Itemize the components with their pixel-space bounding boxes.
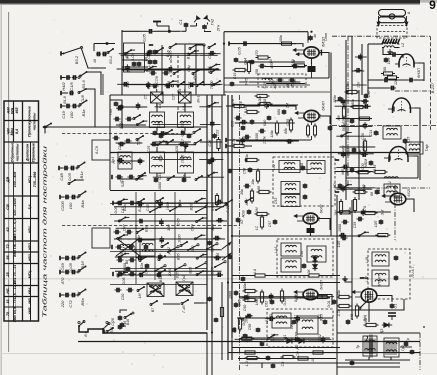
wire switch down: [82, 49, 107, 68]
svg-text:В19: В19: [373, 165, 377, 171]
switch row1 a: [149, 45, 164, 53]
texture mid band 2: [232, 101, 298, 144]
texture right coil area: [198, 102, 224, 177]
caps y272: [113, 272, 136, 285]
svg-text:2200: 2200: [362, 141, 366, 151]
junction dots row: [168, 30, 312, 333]
texture converter 2: [264, 62, 305, 88]
svg-text:L22: L22: [290, 323, 294, 329]
capacitor C51: [303, 183, 308, 189]
wire det frame: [337, 309, 390, 311]
svg-text:1М: 1М: [286, 102, 290, 108]
trimmer group box dashed: [258, 74, 306, 87]
output transformer Tr1 w1: [364, 336, 368, 339]
label Ant: [407, 11, 411, 15]
capacitor pair C6: [144, 49, 157, 61]
resistor R15: [337, 105, 346, 121]
wire bottom fm row: [368, 79, 424, 81]
bus res c: [215, 193, 218, 207]
cluster capsw y272: [60, 266, 87, 285]
wire ARU long: [44, 127, 46, 134]
bus cap h: [214, 317, 219, 322]
dense IF extras: [241, 94, 272, 130]
resistor R21: [251, 169, 260, 185]
svg-text:70: 70: [6, 312, 10, 316]
stub stage: [225, 138, 227, 148]
wire left column vertical: [109, 95, 111, 190]
svg-text:910: 910: [127, 66, 131, 73]
wire y236 extension: [330, 235, 348, 237]
capacitor C65: [337, 236, 348, 248]
caps y258: [116, 258, 135, 271]
svg-text:С42: С42: [362, 184, 366, 192]
svg-text:510: 510: [159, 154, 163, 161]
converter wire y92: [224, 91, 330, 93]
coil box K2: [300, 161, 325, 174]
svg-text:Гр: Гр: [406, 338, 410, 342]
vertical x420 right: [419, 108, 421, 180]
svg-text:120п: 120п: [342, 100, 346, 109]
svg-text:68: 68: [370, 192, 374, 196]
svg-text:100: 100: [69, 111, 74, 118]
label Otv: [324, 33, 328, 41]
resistor R7: [231, 99, 247, 108]
row3 caps: [148, 84, 174, 89]
capacitor C13: [308, 34, 317, 41]
caps left col 2: [113, 117, 132, 130]
svg-text:1000: 1000: [158, 182, 162, 190]
bottom coil row caps: [112, 175, 135, 187]
small mark right: [423, 326, 425, 328]
svg-text:1М: 1М: [320, 293, 324, 299]
svg-text:1000: 1000: [338, 224, 342, 232]
texture bottom mid: [235, 293, 335, 344]
svg-text:560к: 560к: [342, 123, 346, 131]
capacitor C4 trimmer: [386, 52, 398, 64]
cap on bus: [212, 130, 219, 139]
svg-text:ЗМ: ЗМ: [380, 209, 384, 215]
loop antenna lead left: [377, 16, 380, 26]
svg-text:С5б: С5б: [367, 90, 371, 98]
loop antenna upper turn: [379, 10, 406, 20]
switch mid 2: [193, 128, 201, 134]
svg-text:4,7к: 4,7к: [337, 309, 341, 316]
svg-text:С53: С53: [274, 198, 278, 205]
svg-text:В4а: В4а: [80, 200, 85, 208]
capacitor C80: [327, 299, 336, 307]
svg-text:С35: С35: [353, 222, 357, 229]
wire out frame: [337, 332, 420, 334]
coil box K7: [281, 258, 301, 272]
svg-text:С19: С19: [61, 111, 66, 119]
svg-text:680: 680: [263, 119, 267, 126]
svg-text:С62: С62: [269, 294, 273, 302]
svg-text:С26: С26: [208, 139, 212, 147]
dash-dot vertical x239: [239, 95, 241, 370]
speaker transformer w2: [384, 338, 405, 357]
coil box L4L5: [150, 112, 165, 128]
bus corner right: [207, 332, 212, 375]
svg-text:2Гн: 2Гн: [216, 24, 221, 32]
svg-text:В2б: В2б: [188, 266, 192, 274]
svg-text:6Н3П: 6Н3П: [320, 280, 324, 290]
coil box L8: [150, 152, 165, 173]
capacitor C5: [384, 57, 389, 63]
svg-text:47к: 47к: [239, 101, 243, 107]
wire tube cathode: [311, 58, 313, 64]
svg-text:100к: 100к: [245, 315, 249, 323]
dashed box disc: [267, 309, 333, 347]
capacitor C9: [368, 86, 396, 91]
resistor R5: [242, 60, 251, 74]
output tube L6: [361, 289, 377, 302]
svg-text:Тр: Тр: [356, 345, 360, 349]
svg-text:Промежуточные: Промежуточные: [28, 106, 32, 137]
svg-text:Гн2: Гн2: [210, 18, 215, 25]
vertical x175 low: [174, 192, 176, 280]
svg-text:С54: С54: [243, 168, 247, 175]
svg-text:0,25: 0,25: [283, 299, 287, 306]
switch under Gr2: [181, 299, 189, 313]
svg-text:кгц: кгц: [10, 107, 14, 114]
capacitor C17: [273, 78, 284, 89]
dashed h line left2: [62, 225, 240, 227]
svg-text:ДВ: ДВ: [6, 177, 10, 184]
svg-text:С35: С35: [286, 118, 290, 126]
wire R3 to tube: [294, 44, 303, 47]
svg-text:С45: С45: [176, 218, 180, 226]
label 2Gn: [216, 24, 221, 32]
texture switch bank labels: [121, 50, 221, 90]
triode dome L3a: [393, 98, 411, 113]
svg-text:С31: С31: [158, 173, 162, 180]
resistor R43: [364, 318, 379, 327]
svg-text:Х2: Х2: [240, 220, 244, 225]
texture right IF col: [334, 98, 373, 193]
svg-text:L2: L2: [401, 43, 405, 47]
resistor R8: [244, 106, 260, 114]
coil box K6: [300, 246, 326, 262]
wire FM in left: [368, 44, 381, 58]
svg-text:100к: 100к: [279, 35, 283, 43]
svg-text:Д2: Д2: [318, 314, 322, 321]
capacitor C75: [323, 319, 328, 325]
dash-dot mid right: [332, 125, 437, 127]
page number 9: [429, 0, 436, 12]
coil 5-25: [262, 78, 272, 88]
wire h y352 dark: [228, 352, 420, 354]
label L1 6I1P: [318, 37, 326, 55]
tube grid left leads: [293, 49, 304, 55]
switch mid 1: [165, 129, 173, 135]
switch left y180: [68, 179, 84, 185]
capacitor C41: [333, 95, 342, 103]
switch row1 c: [189, 44, 205, 50]
dashed box det: [368, 249, 410, 299]
svg-text:С20б: С20б: [60, 200, 65, 210]
capacitor C16 block: [308, 64, 316, 78]
texture bottom mid labels: [238, 292, 333, 343]
svg-text:0,25: 0,25: [294, 294, 298, 302]
wire stage link1: [231, 153, 233, 161]
wire out bottom2: [337, 366, 400, 368]
svg-text:В1г: В1г: [207, 67, 211, 74]
switch y271: [139, 269, 166, 282]
svg-text:10к: 10к: [337, 290, 341, 296]
svg-text:В3-6: В3-6: [81, 80, 86, 89]
capacitor C71: [234, 300, 242, 308]
terminal stub B3: [61, 51, 64, 55]
resistor R10: [284, 118, 293, 134]
label L6: [378, 275, 382, 287]
triode tube L5: [303, 289, 318, 299]
switch row2 b: [192, 69, 200, 84]
tube4 plate wire: [318, 219, 330, 231]
crossed transformer Gr2: [176, 275, 193, 295]
caps row y268: [126, 263, 150, 271]
switch row2 a: [173, 69, 181, 75]
pentode tube L1: [304, 47, 319, 58]
box 6-S9 mid: [92, 140, 110, 160]
svg-text:6Х2П: 6Х2П: [407, 187, 411, 197]
svg-text:С14: С14: [244, 58, 248, 65]
output transformer Tr1: [356, 336, 377, 356]
switch pair bottom: [78, 320, 114, 336]
wire dome3 plate: [415, 108, 420, 125]
resistor row y275 a: [253, 269, 268, 277]
switch bottom 1: [138, 172, 146, 178]
resistor R14: [351, 99, 366, 109]
dash-dot boundary horizontal: [332, 35, 430, 37]
switch left 2: [136, 135, 144, 141]
resistor R41: [337, 304, 352, 316]
svg-text:В5а: В5а: [80, 298, 85, 306]
resistor R25: [255, 215, 264, 231]
capacitor C50: [301, 165, 306, 170]
wire x205 link: [203, 45, 205, 86]
svg-text:НБ: НБ: [6, 288, 10, 294]
svg-text:110к: 110к: [270, 130, 274, 138]
svg-text:4н: 4н: [313, 34, 317, 38]
dash-dot boundary right vertical: [430, 36, 432, 130]
svg-text:С22: С22: [119, 175, 123, 183]
label L4: [317, 204, 324, 222]
wire diode row: [270, 340, 322, 342]
svg-text:1000: 1000: [178, 234, 182, 243]
svg-text:6К4П: 6К4П: [322, 101, 326, 110]
capacitor C40: [240, 135, 251, 146]
svg-text:Г13: Г13: [183, 174, 187, 181]
pentode tube L4: [303, 213, 318, 224]
coil box K3: [281, 182, 300, 194]
svg-text:1000: 1000: [229, 291, 233, 299]
svg-text:0,05: 0,05: [67, 172, 72, 181]
svg-text:300: 300: [167, 224, 171, 231]
vertical pair left: [101, 72, 103, 95]
switch row3 a: [177, 81, 185, 95]
svg-text:В2в: В2в: [144, 225, 148, 232]
dashed h line left: [62, 133, 178, 135]
bus cap d: [207, 240, 212, 245]
ground FM: [387, 49, 392, 53]
switch row1 d: [208, 43, 216, 49]
svg-text:L12: L12: [272, 164, 276, 170]
wire fm left vertical: [367, 58, 369, 95]
capacitor C8: [407, 78, 414, 83]
label P4 67: [411, 265, 415, 277]
svg-text:1,0: 1,0: [245, 362, 249, 367]
svg-text:1000: 1000: [166, 201, 170, 210]
coil cross motif: [116, 238, 148, 264]
coil box B2: [290, 316, 318, 334]
svg-text:С50: С50: [243, 305, 247, 312]
switch V3-4: [107, 48, 114, 64]
capacitor C42: [364, 90, 371, 99]
svg-text:АОБ: АОБ: [242, 210, 246, 219]
svg-text:С49: С49: [191, 224, 195, 232]
svg-text:Мгц: Мгц: [10, 128, 14, 136]
capacitor C83: [346, 319, 351, 325]
svg-text:С23: С23: [216, 130, 220, 137]
svg-text:1000: 1000: [361, 163, 365, 172]
caps left col 3: [112, 136, 131, 151]
texture between coils: [151, 129, 196, 149]
svg-text:0,05: 0,05: [271, 333, 275, 341]
svg-text:В1д: В1д: [167, 81, 171, 88]
dash-dot FM left vertical: [347, 36, 349, 188]
triode dome L3b: [389, 147, 408, 163]
svg-text:0,05: 0,05: [238, 300, 242, 307]
resistor R30: [243, 283, 258, 293]
svg-text:С50: С50: [269, 313, 273, 321]
svg-text:0,05: 0,05: [211, 266, 215, 274]
label 6N3P: [417, 68, 421, 78]
resistor R3: [279, 35, 294, 45]
cluster capsw y168: [59, 162, 86, 181]
capacitor C38b: [328, 125, 333, 131]
label Vch-1: [197, 95, 201, 102]
svg-text:100: 100: [68, 202, 73, 209]
tube5 leads: [294, 291, 303, 298]
caps between boxes 1: [153, 130, 164, 138]
capacitor C2200: [347, 147, 357, 157]
capacitor pair C7b: [148, 59, 158, 64]
svg-text:С20: С20: [121, 294, 125, 301]
resistor row y275 b: [307, 268, 322, 277]
wire P in: [345, 276, 352, 282]
table divider right col: [30, 142, 32, 321]
bottom extra caps: [232, 324, 265, 347]
switch y200 c: [225, 199, 233, 213]
horizontal y284 link: [110, 284, 207, 286]
capacitor C77: [271, 364, 276, 369]
triode tube L5b: [390, 193, 406, 205]
caps under boxes: [154, 177, 187, 190]
resistor R13: [345, 83, 360, 94]
wire x122 mid: [110, 100, 122, 128]
resistor R20: [245, 154, 260, 162]
svg-text:В2б: В2б: [189, 203, 193, 211]
svg-text:В-217: В-217: [430, 82, 435, 93]
switch under Gr1: [150, 300, 158, 312]
switch y229: [136, 228, 144, 241]
svg-text:0,05: 0,05: [237, 46, 242, 55]
svg-text:0,05: 0,05: [211, 203, 215, 211]
resistor R40: [337, 290, 352, 299]
bus cap a: [207, 159, 212, 164]
coil horizontal: [384, 177, 398, 187]
vertical x196 links: [195, 45, 197, 95]
switch y198 b: [156, 197, 164, 203]
vertical x352b: [351, 200, 353, 320]
resistor R42: [350, 304, 359, 322]
capacitor C82 plates: [388, 313, 396, 320]
crossed transformer Gr1: [147, 283, 164, 297]
caps right col: [403, 137, 411, 144]
svg-text:10к: 10к: [251, 179, 255, 185]
cluster caps y318: [111, 315, 122, 330]
svg-text:Приемные: Приемные: [32, 143, 36, 162]
wire L5b plate: [406, 199, 414, 212]
resistor bottom b: [281, 355, 296, 366]
coil box L8b: [376, 126, 401, 139]
loop antenna lower turn: [379, 14, 406, 23]
dash-dot boundary bottom: [395, 90, 430, 92]
wire bottom-left white guard: [0, 0, 1, 1]
svg-text:В1б: В1б: [187, 52, 191, 60]
capacitor C46: [345, 167, 354, 176]
tube2 grid leads: [295, 112, 304, 119]
svg-text:0,05: 0,05: [68, 262, 73, 271]
svg-text:С69: С69: [60, 263, 65, 271]
wire det right: [390, 299, 404, 310]
svg-text:6-С9: 6-С9: [95, 146, 99, 154]
vertical x352 fm: [351, 36, 353, 95]
resistor R31: [243, 298, 258, 311]
svg-text:30: 30: [286, 84, 290, 88]
label L5: [320, 280, 324, 290]
resistor R9: [258, 95, 273, 105]
svg-text:С72: С72: [68, 300, 73, 308]
vertical x308: [307, 32, 309, 43]
switch row y140: [166, 139, 202, 145]
svg-text:10П: 10П: [337, 240, 341, 247]
bus cap b: [228, 168, 233, 173]
switch y316: [124, 312, 134, 325]
tube4 grid leads: [294, 215, 303, 222]
left page edge line: [0, 5, 2, 375]
svg-text:8,4: 8,4: [15, 129, 19, 134]
top bus wire: [224, 31, 308, 33]
svg-text:С14: С14: [369, 130, 373, 137]
box Sp1: [124, 43, 145, 72]
svg-text:М8: М8: [342, 145, 346, 151]
svg-text:ЗМ: ЗМ: [334, 210, 338, 215]
svg-text:С10: С10: [147, 81, 151, 89]
wire 122 from C2: [122, 30, 140, 32]
capacitor C59: [236, 217, 244, 225]
svg-text:1к: 1к: [245, 154, 249, 158]
table caption: [42, 146, 49, 318]
svg-text:2М: 2М: [255, 208, 259, 214]
cluster capsw y197: [60, 191, 87, 211]
wire cluster right: [87, 72, 101, 95]
svg-text:L14: L14: [274, 247, 278, 253]
svg-text:510: 510: [137, 138, 141, 145]
coil box L9: [178, 152, 194, 173]
resistor R27: [348, 197, 357, 215]
coil box K5: [274, 243, 301, 256]
